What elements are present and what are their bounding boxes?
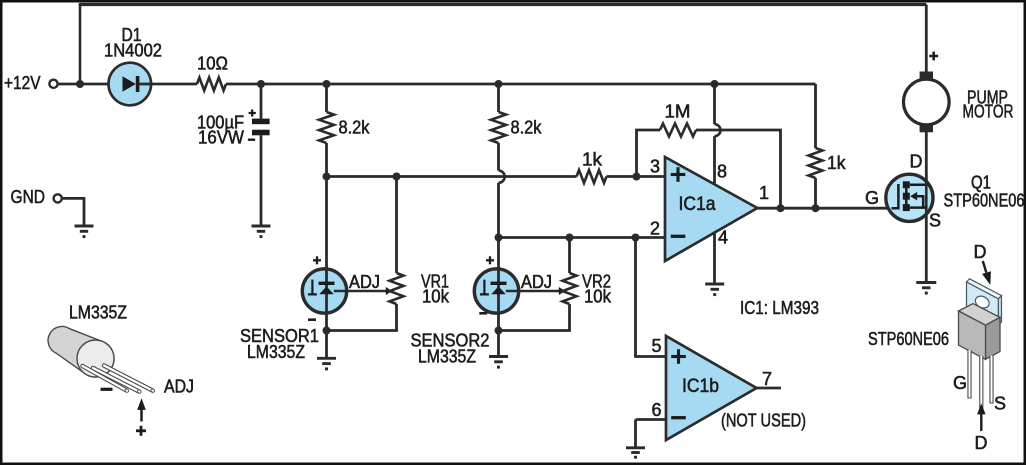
package TO220 body [959, 304, 1001, 360]
node sensor1 top junction [323, 173, 331, 181]
svg-text:8.2k: 8.2k [339, 118, 371, 138]
svg-text:3: 3 [650, 157, 660, 177]
wire 8.2k-1 top lead [325, 84, 328, 112]
label sensor1 plus [313, 256, 321, 264]
motor PUMP MOTOR [904, 79, 950, 125]
svg-text:10k: 10k [584, 287, 612, 307]
transistor Q1 symbol [892, 181, 927, 211]
wire sensor2 to VR2 bottom [499, 304, 570, 331]
wire pin5 [636, 238, 667, 357]
svg-text:1M: 1M [665, 102, 691, 122]
wire 1k to pin3 [607, 175, 666, 178]
svg-text:8: 8 [717, 162, 727, 182]
wire sensor2 through [497, 270, 500, 331]
wire hop over pin3 line [499, 171, 505, 183]
ground IC1a pin4 [705, 284, 724, 295]
svg-text:S: S [994, 394, 1006, 414]
svg-text:4: 4 [718, 228, 728, 248]
svg-text:LM335Z: LM335Z [418, 347, 476, 367]
wire pin8 below hop [713, 136, 716, 185]
wire pin6 [636, 418, 667, 421]
svg-text:5: 5 [651, 336, 661, 356]
wire +12V lead [58, 83, 123, 86]
wire pin3 line [327, 175, 577, 178]
wire 8.2k-1 to sensor1 [325, 143, 328, 270]
label cap minus [248, 138, 255, 140]
resistor 10ohm [197, 78, 226, 91]
svg-text:MOTOR: MOTOR [963, 102, 1014, 122]
transistor Q1 body [886, 174, 933, 221]
svg-text:D: D [974, 242, 987, 262]
svg-text:LM335Z: LM335Z [247, 342, 305, 362]
label sensor1 minus [308, 318, 316, 321]
node VR1 top junction [393, 173, 401, 181]
label cap plus [249, 109, 256, 116]
potentiometer VR2 [563, 273, 577, 304]
op-amp IC1b [666, 336, 757, 440]
wire 8.2k-2 down to hop [497, 143, 500, 171]
svg-text:IC1a: IC1a [679, 194, 716, 215]
wire sensor1 through [325, 270, 328, 331]
wire GND lead [62, 198, 84, 224]
node +12V junction [76, 80, 84, 88]
diode D1 [109, 63, 152, 106]
wire top +12V rail [80, 3, 926, 6]
svg-text:G: G [865, 188, 879, 208]
sensor SENSOR2 body [474, 269, 518, 313]
ground cap [252, 226, 271, 237]
wire IC1a output [757, 207, 893, 210]
op-amp IC1a [665, 157, 757, 261]
ground GND terminal [75, 226, 94, 237]
resistor 8.2k first [319, 112, 334, 143]
svg-text:D: D [975, 433, 988, 453]
wire pin6 ground lead [634, 420, 637, 447]
terminal GND [54, 194, 62, 202]
arrow package plus lead [137, 398, 146, 421]
svg-text:1: 1 [759, 183, 769, 203]
label IC1a plus [671, 167, 686, 182]
node 1M output junction [777, 204, 785, 212]
wire pin2 line [499, 236, 666, 239]
ground Q1 source [916, 283, 936, 294]
wire Q1 vertical channel [925, 174, 928, 214]
label IC1b minus [671, 416, 686, 419]
svg-text:G: G [953, 373, 967, 393]
wire pin4 [713, 232, 716, 283]
ground IC1b pin6 [626, 448, 645, 457]
node sensor1 bottom junction [323, 327, 331, 335]
wire cap bottom lead [260, 135, 263, 225]
wire 1M right leg [696, 130, 781, 208]
resistor 1k pullup [809, 148, 823, 178]
svg-text:ADJ: ADJ [164, 377, 194, 397]
svg-text:ADJ: ADJ [349, 272, 380, 292]
svg-text:1k: 1k [827, 153, 846, 173]
node VR2 top junction [566, 234, 574, 242]
package LM335Z legs [83, 366, 156, 394]
arrow package D tab [982, 261, 991, 285]
node IC1b tap junction [632, 234, 640, 242]
sensor SENSOR1 symbol [308, 280, 335, 295]
label sensor2 minus [479, 312, 487, 315]
wire cap top lead [260, 84, 263, 119]
node 8.2k-1 top junction [323, 80, 331, 88]
wire hop to sensor2 [497, 183, 500, 270]
svg-text:(NOT USED): (NOT USED) [721, 411, 806, 431]
wire sensor2 ground lead [497, 331, 500, 356]
package TO220 legs [970, 350, 992, 409]
label package plus [136, 426, 146, 436]
node 1M tap junction [633, 173, 641, 181]
sensor SENSOR2 symbol [480, 280, 507, 295]
motor terminal top [920, 72, 933, 80]
label IC1b plus [671, 349, 686, 364]
wiper arrow VR1 [386, 287, 393, 295]
terminal +12V [49, 80, 57, 88]
wire 8.2k-2 top lead [497, 84, 500, 112]
package TO220 tab [967, 279, 1002, 325]
node output 1k junction [812, 204, 820, 212]
ground sensor1 [317, 358, 336, 369]
wire 1k pullup top lead [814, 84, 817, 148]
svg-text:IC1: LM393: IC1: LM393 [740, 298, 819, 318]
wire sensor2 ADJ [506, 290, 559, 292]
capacitor 100uF [252, 119, 270, 136]
wire pin8 [713, 84, 716, 124]
wire 1M left leg [637, 130, 661, 177]
svg-text:Q1: Q1 [971, 173, 991, 193]
svg-text:10k: 10k [422, 287, 450, 307]
wire sensor1 ADJ [334, 290, 386, 292]
package LM335Z body [48, 326, 114, 377]
label IC1a minus [671, 235, 686, 238]
wire sensor1 ground lead [325, 331, 328, 358]
svg-text:D: D [910, 152, 923, 172]
wire top rail left drop [79, 3, 82, 84]
resistor 8.2k second [491, 112, 506, 143]
wire IC1b output [757, 387, 782, 390]
node 8.2k-2 top junction [495, 80, 503, 88]
svg-text:10Ω: 10Ω [197, 54, 228, 74]
wiper arrow VR2 [559, 287, 566, 295]
motor terminal bottom [920, 124, 933, 132]
label motor plus [929, 52, 938, 61]
wire VR2 top lead [568, 238, 571, 274]
node cap junction [257, 80, 265, 88]
node pin8 rail junction [711, 80, 719, 88]
svg-text:LM335Z: LM335Z [69, 303, 127, 323]
svg-text:7: 7 [762, 369, 772, 389]
svg-text:S: S [929, 211, 941, 231]
svg-text:8.2k: 8.2k [511, 118, 543, 138]
wire pin8 hop over 1M [715, 124, 721, 136]
svg-text:1k: 1k [582, 150, 603, 170]
wire sensor1 to VR1 bottom [327, 304, 397, 331]
svg-text:STP60NE06: STP60NE06 [944, 191, 1025, 211]
resistor 1M [660, 124, 696, 137]
svg-text:16VW: 16VW [198, 128, 244, 148]
svg-text:6: 6 [651, 400, 661, 420]
svg-text:STP60NE06: STP60NE06 [868, 329, 949, 349]
wire main rail [226, 83, 816, 86]
sensor SENSOR1 body [302, 269, 346, 313]
svg-text:ADJ: ADJ [521, 272, 552, 292]
wire motor drop [925, 5, 928, 73]
resistor 1k input [577, 170, 607, 183]
arrow package D bottom [977, 404, 986, 432]
potentiometer VR1 [390, 273, 404, 304]
node sensor2 pin2 junction [495, 234, 503, 242]
svg-text:+12V: +12V [4, 73, 41, 93]
label sensor2 plus [486, 256, 494, 264]
svg-text:GND: GND [11, 187, 46, 207]
svg-text:1N4002: 1N4002 [104, 41, 162, 61]
wire D1 to R 10ohm [139, 83, 197, 86]
wire motor to Q1 drain [925, 132, 928, 281]
svg-text:2: 2 [650, 219, 660, 239]
wire 1k pullup bottom lead [814, 178, 817, 208]
svg-text:IC1b: IC1b [682, 376, 719, 397]
wire VR1 top lead [395, 177, 398, 274]
label package minus [101, 388, 113, 391]
ground sensor2 [489, 357, 508, 368]
node sensor2 bottom junction [495, 327, 503, 335]
